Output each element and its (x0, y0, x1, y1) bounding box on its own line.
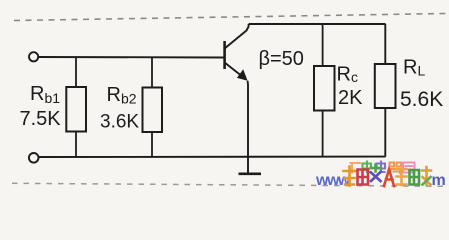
resistor RL (375, 24, 396, 157)
svg-text:3.6K: 3.6K (100, 112, 139, 133)
base bar (223, 41, 226, 69)
svg-text:β=50: β=50 (259, 48, 304, 70)
svg-text:www: www (315, 172, 351, 189)
svg-text:m: m (432, 172, 446, 189)
svg-text:7.5K: 7.5K (20, 108, 62, 130)
svg-text:5.6K: 5.6K (400, 88, 443, 111)
input terminal (bottom-left circle) (29, 153, 39, 163)
resistor Rb2 (143, 58, 163, 158)
ground (emitter to ground bar) (239, 157, 262, 174)
collector lead (225, 24, 249, 49)
emitter lead with arrow (225, 63, 243, 78)
input terminal (top-left circle) (29, 52, 38, 61)
watermark line 1: colored CJK-style glyphs (315, 162, 446, 190)
resistor Rb1 (66, 57, 86, 157)
wire: collector rail (249, 23, 386, 25)
bottom dashed border line (12, 183, 446, 186)
wire: base rail from input terminal to transistor base (38, 56, 224, 59)
wire: bottom ground rail (39, 156, 386, 158)
svg-text:2K: 2K (338, 87, 363, 109)
top dashed border line (14, 14, 446, 21)
transistor Q1 (NPN) (225, 24, 249, 157)
resistor Rc (314, 24, 335, 157)
